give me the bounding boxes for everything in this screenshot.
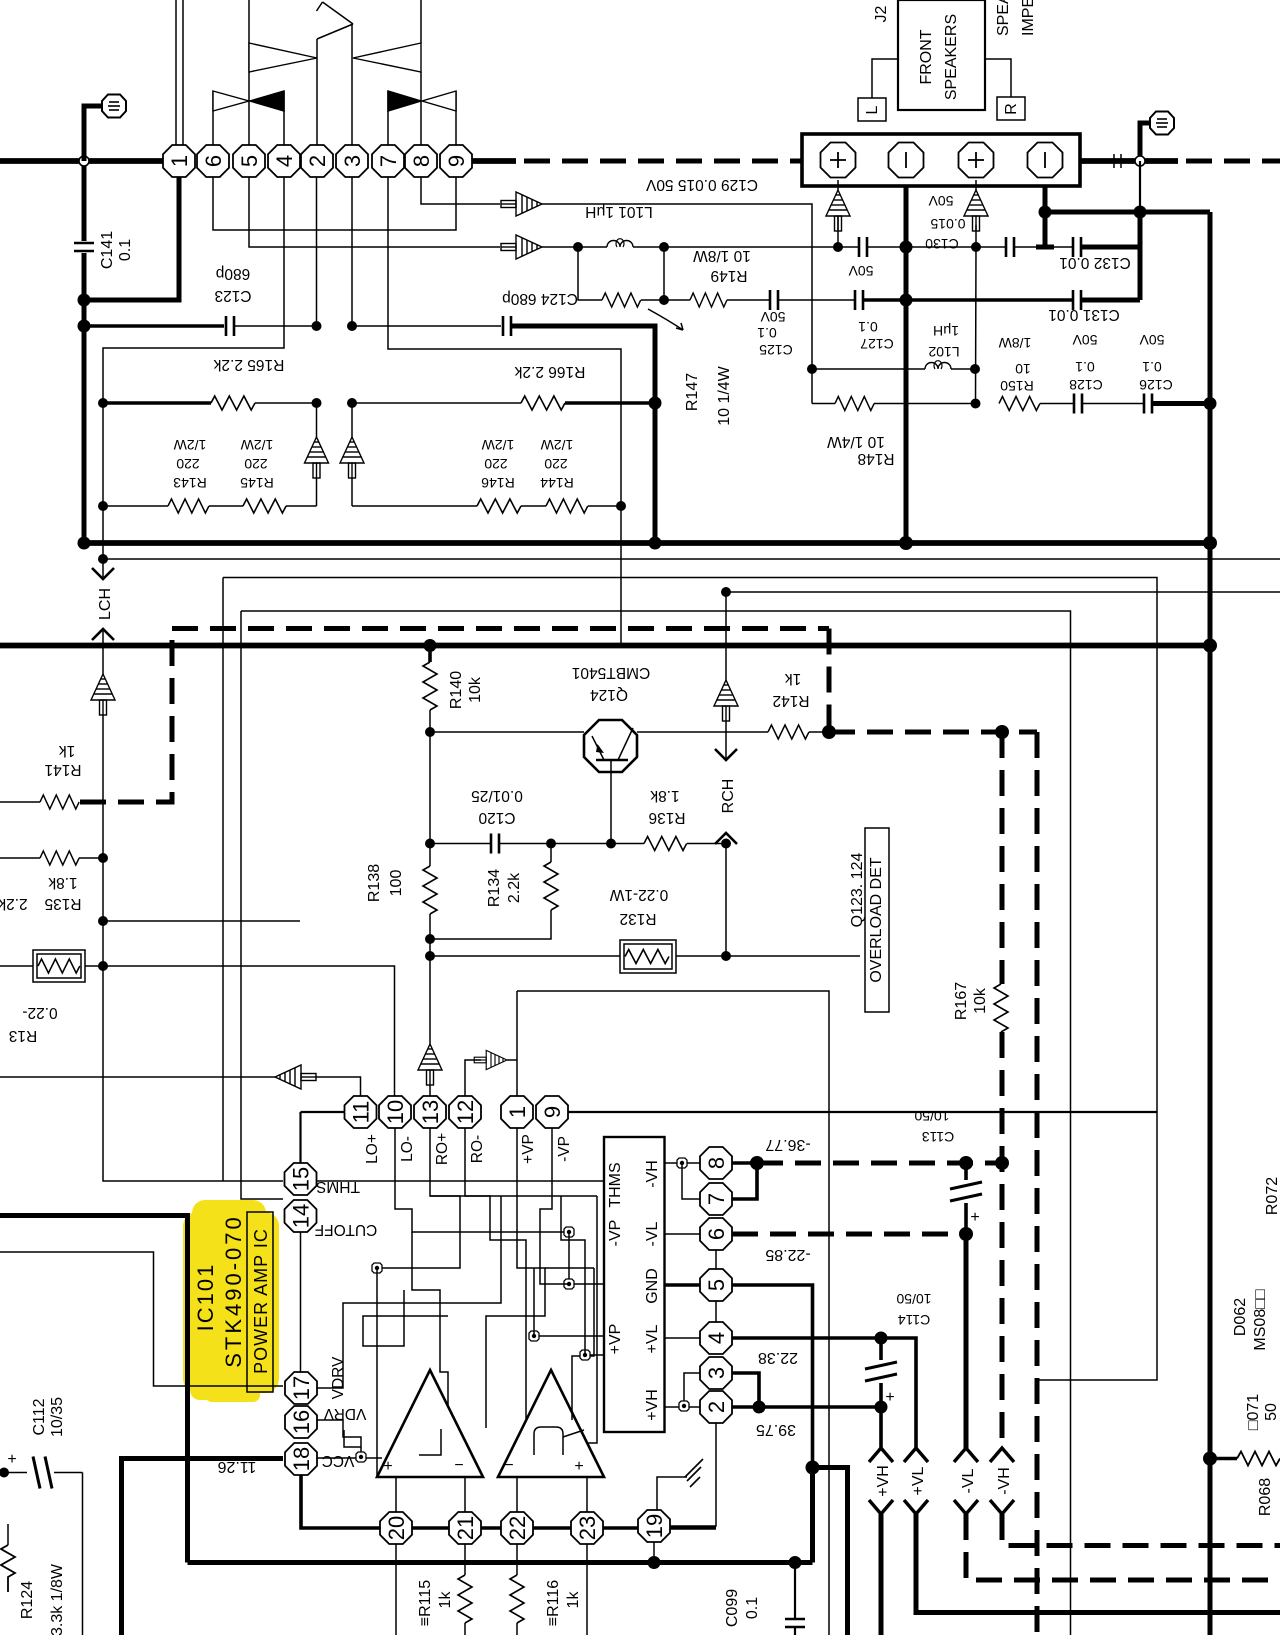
node dot (906,247) (900, 241, 913, 254)
svg-text:22: 22 (505, 1516, 530, 1540)
terminal R box (985, 59, 1025, 120)
svg-text:C113: C113 (922, 1129, 955, 1145)
IC inner label box (604, 1137, 665, 1432)
svg-text:50V: 50V (1139, 332, 1165, 348)
arrow input LCH out (y204) (501, 192, 542, 216)
svg-text:1: 1 (505, 1106, 530, 1118)
wire pin12 column with right arrow (465, 1060, 481, 1096)
wire GND row heavy box to pin5 (664, 1283, 700, 1287)
node dot (655,543) (649, 537, 662, 550)
wire mesh pin12 drop (465, 1128, 526, 1419)
wire -VL row box to pin6 (664, 1233, 700, 1235)
wire -L terminal down to bus2 (904, 186, 909, 543)
svg-text:R150: R150 (1000, 378, 1034, 394)
svg-text:R145: R145 (240, 475, 274, 491)
resistor R142 1k (768, 670, 829, 739)
svg-text:1k: 1k (565, 1591, 582, 1609)
resistor R165 2.2k (103, 356, 317, 410)
wire pin8 heavy to dashed node (732, 1161, 757, 1165)
wire THMS pin15 row to box (317, 1180, 604, 1182)
wire triangle R outputs down (516, 1477, 518, 1512)
wire pin4 heavy right y1338 (732, 1338, 916, 1448)
svg-text:2: 2 (704, 1401, 729, 1413)
resistor R137 fusible 0.22-1W (0, 950, 103, 1044)
resistor R115 1k (417, 1544, 472, 1635)
svg-text:19: 19 (642, 1514, 667, 1538)
connector pin 1 (163, 145, 195, 177)
svg-text:0.1: 0.1 (1142, 359, 1162, 375)
node dot (975,403.5) (971, 399, 981, 409)
node dot (352,403) (347, 398, 357, 408)
wire stub y921 (103, 920, 300, 922)
wire triangle L outputs down (395, 1477, 397, 1512)
svg-text:−: − (504, 1457, 513, 1474)
capacitor C120 0.01/25 (471, 787, 523, 854)
pin 19 (638, 1510, 670, 1542)
svg-text:LO+: LO+ (364, 1134, 381, 1164)
node dot (1045,212) (1039, 206, 1052, 219)
label POWER AMP IC box (247, 1212, 273, 1392)
node hexdot (684,1405) (679, 1401, 689, 1411)
terminal - L (889, 143, 924, 178)
arrow on LCH column (91, 674, 115, 715)
wire pins14-17 column (300, 1232, 302, 1372)
svg-text:18: 18 (289, 1447, 314, 1471)
svg-text:0.1: 0.1 (1075, 359, 1095, 375)
wire pin2 column to R145 row (316, 403, 318, 437)
wire x430 956 to arrow (429, 956, 431, 1044)
pin 2 (700, 1391, 732, 1423)
resistor R136 1.8k (644, 787, 726, 851)
wire C120 row y843.5 (430, 843, 491, 845)
wire heavy x1210 vertical top (1208, 212, 1213, 1635)
wire heavy pin row y1528 (380, 1526, 716, 1530)
speaker terminal box (802, 134, 1080, 186)
node dashed dot (1002,732) (995, 725, 1009, 739)
svg-text:RCH: RCH (720, 779, 737, 814)
svg-text:0.1: 0.1 (744, 1597, 761, 1619)
wire pin5 to L101 row y247 (249, 177, 500, 247)
inductor L102 1uH (812, 323, 975, 369)
wire pin7 tie to hexdot (682, 1163, 700, 1199)
highlight marker IC101 (183, 1200, 279, 1402)
svg-text:+VH: +VH (875, 1465, 892, 1497)
wire dashed -VP row y1163 (757, 1161, 1002, 1166)
svg-text:-VH: -VH (644, 1160, 661, 1188)
svg-text:50: 50 (1263, 1403, 1280, 1421)
wire Q124 right to R142 (637, 731, 768, 733)
wire R138 bottom (429, 914, 431, 956)
wire heavy bus2 y543 (82, 540, 1210, 546)
pin 5 (700, 1269, 732, 1301)
svg-text:Q124: Q124 (590, 686, 628, 703)
svg-text:7: 7 (376, 155, 401, 167)
svg-text:R132: R132 (619, 910, 656, 927)
wire C125 to C127 (778, 299, 855, 301)
capacitor C127 0.1 50V (848, 263, 894, 352)
arrow on pin13 column (418, 1044, 442, 1085)
svg-text:0.22-1W: 0.22-1W (609, 886, 668, 903)
svg-text:CMBT5401: CMBT5401 (572, 664, 650, 681)
wire heavy pin18 to pin row (301, 1475, 380, 1528)
node dot (759,1407) (753, 1401, 766, 1414)
wire heavy bus right of pin 9 (470, 158, 516, 164)
svg-text:1/2W: 1/2W (540, 437, 573, 453)
node dot (611,843.5) (606, 839, 616, 849)
connector pin 8 (405, 145, 437, 177)
capacitor C099 0.1 (724, 1563, 805, 1635)
wire dashed vertical x1002 R167 to -VH chev (1000, 1032, 1005, 1446)
resistor R134 2.2k (430, 844, 558, 940)
capacitor C123 680p (214, 265, 316, 336)
wire C129 to -L column (867, 246, 906, 248)
svg-text:10/35: 10/35 (49, 1397, 66, 1437)
node dot (664,300) (659, 295, 669, 305)
svg-text:220: 220 (244, 456, 268, 472)
svg-text:R146: R146 (481, 475, 515, 491)
wire dashed heavy bus to speaker box (524, 159, 802, 164)
svg-text:SPEAKERS: SPEAKERS (943, 14, 960, 100)
wire R149 branch down from L101 left node (578, 247, 602, 300)
wire y247 row to C129 (664, 246, 859, 248)
wire arrow to pin11 (316, 1077, 361, 1096)
wire mesh loop b (572, 1268, 594, 1420)
svg-text:-VH: -VH (996, 1467, 1013, 1495)
svg-text:+VP: +VP (520, 1134, 537, 1164)
svg-text:1: 1 (167, 155, 192, 167)
svg-text:C129 0.015 50V: C129 0.015 50V (645, 176, 758, 193)
svg-text:10 1/4W: 10 1/4W (827, 433, 885, 450)
connector J2 body (898, 0, 985, 110)
op-amp triangle L (377, 1370, 483, 1477)
chassis ground bolt top-left (84, 95, 126, 162)
resistor R150 10 1/8W (998, 335, 1040, 411)
svg-text:220: 220 (176, 456, 200, 472)
pin 16 (285, 1406, 317, 1438)
wire mesh x377 drop to L input (376, 1268, 378, 1477)
svg-text:39.75: 39.75 (756, 1421, 796, 1438)
svg-text:50V: 50V (1072, 332, 1098, 348)
svg-text:D062: D062 (1232, 1298, 1249, 1336)
node hexdot (377,1268) (372, 1263, 382, 1273)
wire base row y732 (430, 731, 584, 733)
svg-text:R068: R068 (1257, 1478, 1274, 1516)
svg-text:17: 17 (289, 1376, 314, 1400)
arrow below terminal +R (964, 180, 988, 231)
node +VL chevrons (904, 1448, 1280, 1613)
svg-text:STK490-070: STK490-070 (221, 1214, 246, 1368)
terminal L box (858, 59, 898, 121)
wire y247 row (542, 246, 578, 248)
wire C123 row heavy stub (84, 324, 224, 328)
pin 10 (379, 1096, 411, 1128)
wire x103 column 631-1181 handled above; dot (103,921) (98, 916, 108, 926)
wire VDRV net pin17 (317, 1196, 501, 1388)
svg-text:7: 7 (704, 1193, 729, 1205)
capacitor C126 0.1 50V (1139, 332, 1173, 414)
wire pin23 down to bottom (586, 1544, 588, 1635)
wire arrow apex to +VP column (507, 1059, 517, 1061)
wire dashed net y628 (172, 626, 829, 631)
wire heavy bus3 y645.5 (0, 643, 1210, 649)
wire x976 column 247-403 (975, 247, 978, 404)
node dashed dot (829,732) (822, 725, 836, 739)
node dot (103,403) (98, 398, 108, 408)
wire y966 row to x394 down to pin10 (103, 966, 395, 1096)
wire VDRV net pin16 (317, 1420, 361, 1456)
wire x726 843-956 (725, 844, 727, 957)
wire pin1 to node (84, 177, 179, 300)
wire mesh pin10 drop (395, 1128, 569, 1232)
wire C124 row (352, 325, 501, 327)
pin 9 (536, 1096, 568, 1128)
svg-text:13: 13 (418, 1100, 443, 1124)
svg-text:-36.77: -36.77 (765, 1136, 810, 1153)
wire net +VP x829 vertical (517, 991, 829, 1635)
node dot (726,956) (721, 951, 731, 961)
svg-text:LCH: LCH (97, 588, 114, 620)
svg-text:16: 16 (289, 1410, 314, 1434)
wire pin1 column up to y991 (516, 991, 518, 1096)
svg-text:50V: 50V (848, 263, 874, 279)
node dot (1140,212) (1134, 206, 1147, 219)
resistor R135 1.8k (0, 851, 103, 912)
node dot (881,1407) (875, 1401, 888, 1414)
svg-text:R141: R141 (44, 761, 81, 778)
svg-text:R: R (1003, 103, 1020, 115)
capacitor C130 0.015 50V (925, 193, 1014, 257)
svg-text:□071: □071 (1245, 1394, 1262, 1430)
svg-text:J2: J2 (873, 5, 890, 22)
wire -VH row box to pin8 (664, 1162, 700, 1164)
wire x1140 vertical 212-300 (1138, 212, 1143, 300)
wire net THMS y577 to x1157 down (223, 578, 1157, 1381)
wire double line above pin 1 (176, 0, 183, 145)
wire mesh +VP stub (534, 1335, 604, 1337)
wire pin3 heavy elbow to pin2 row (732, 1373, 759, 1407)
node hexdot (682,1163) (677, 1158, 687, 1168)
svg-text:RO+: RO+ (434, 1133, 451, 1165)
wire C131 to x1140 heavy (1081, 298, 1140, 303)
svg-text:20: 20 (384, 1516, 409, 1540)
node hexdot (585,1355) (580, 1350, 590, 1360)
wire C120 to R136 (499, 843, 644, 845)
wire pin19 bottom (653, 1542, 655, 1563)
wire pin7 heavy elbow (732, 1163, 757, 1199)
capacitor C132 0.01 (1054, 237, 1131, 271)
svg-text:R144: R144 (540, 475, 574, 491)
svg-text:4: 4 (704, 1332, 729, 1344)
flag above pin 7 (filled) (388, 91, 421, 145)
pin 21 (449, 1512, 481, 1544)
node dot (757,1163) (750, 1156, 764, 1170)
node bus junction circle at C141 tap (79, 156, 89, 166)
ground rake at pin19 (657, 1459, 703, 1510)
pin 3 (700, 1357, 732, 1389)
wire x1045 down to C132 row (1043, 212, 1048, 247)
svg-text:POWER AMP IC: POWER AMP IC (251, 1228, 271, 1374)
wire RCH arrow to y592 (725, 592, 727, 680)
wire CUTOFF net x241 (241, 611, 283, 1199)
wire arrow to pin13 (429, 1085, 431, 1096)
wire -R terminal down to cap row (1043, 186, 1048, 247)
svg-text:FRONT: FRONT (918, 29, 935, 84)
wire ticks on bus (1114, 154, 1121, 168)
node dot (430,956) (425, 951, 435, 961)
svg-text:R136: R136 (648, 809, 685, 826)
label Q123.124 OVERLOAD DET (849, 828, 889, 1012)
wire x430 732-863 (429, 732, 431, 866)
svg-text:-VL: -VL (960, 1468, 977, 1493)
node dot (430,732) (425, 727, 435, 737)
node dot (430,843.5) (425, 839, 435, 849)
node dot (966,1163) (959, 1156, 973, 1170)
svg-text:L101 1μH: L101 1μH (585, 203, 653, 220)
svg-text:C130: C130 (925, 236, 959, 252)
svg-text:≡R116: ≡R116 (545, 1580, 562, 1627)
node dot (906,300) (900, 294, 913, 307)
arrow on pin2 column (305, 437, 329, 478)
wire net RCH y592 (726, 591, 1280, 593)
arrow input (y247) (501, 235, 542, 259)
flag above pin 2 (317, 24, 353, 145)
node hexdot (534,1336) (529, 1331, 539, 1341)
node hexdot (361,1457) (356, 1452, 366, 1462)
node dot (84,543) (78, 537, 91, 550)
svg-text:VCC: VCC (322, 1452, 355, 1469)
svg-text:C132 0.01: C132 0.01 (1059, 254, 1131, 271)
resistor R149a (602, 293, 641, 307)
node dot (84,326) (78, 320, 91, 333)
svg-text:OVERLOAD DET: OVERLOAD DET (868, 857, 885, 983)
connector pin 2 (301, 145, 333, 177)
flag above pin 5 (249, 0, 317, 145)
svg-text:C114: C114 (898, 1312, 931, 1328)
svg-text:THMS: THMS (607, 1162, 624, 1207)
wire mesh pin13 drop (377, 1128, 460, 1268)
node dot (812,369) (807, 364, 817, 374)
svg-text:100: 100 (388, 870, 405, 897)
node dot (1210,543) (1203, 536, 1217, 550)
svg-text:C125: C125 (759, 342, 793, 358)
svg-text:2: 2 (305, 155, 330, 167)
capacitor C114 10/50 (865, 1291, 932, 1406)
terminal + L (821, 143, 856, 178)
svg-text:R13: R13 (9, 1027, 37, 1044)
svg-text:8: 8 (409, 155, 434, 167)
node dot (430,939) (425, 934, 435, 944)
svg-text:23: 23 (575, 1516, 600, 1540)
flag above pin 3 (317, 2, 354, 145)
wire dashed corner down x829 (827, 629, 832, 733)
connector pin 3 (336, 145, 368, 177)
svg-text:R124: R124 (19, 1581, 36, 1619)
svg-text:+VP: +VP (607, 1324, 624, 1355)
node -VL chevrons (954, 1234, 1280, 1580)
svg-text:C120: C120 (478, 809, 515, 826)
capacitor C129 plates (859, 237, 867, 257)
svg-text:R134: R134 (486, 869, 503, 907)
resistor R138 100 (366, 864, 437, 914)
wire heavy row y212 (1045, 210, 1210, 215)
flag above pin 6 (213, 91, 249, 145)
wire dashed vertical x1002 down to R167 (1000, 732, 1005, 984)
svg-text:CUTOFF: CUTOFF (315, 1221, 378, 1238)
node dot (103,858) (98, 853, 108, 863)
wire mesh pin1 drop (486, 1128, 545, 1428)
wire pin2 bottom to pin19 (670, 1423, 716, 1526)
resistor R149 10 1/8W (641, 247, 770, 307)
resistor R141 1k (0, 742, 82, 809)
pin 22 (501, 1512, 533, 1544)
svg-text:8: 8 (704, 1157, 729, 1169)
flag above pin 9 (422, 91, 456, 145)
svg-text:C141: C141 (99, 231, 116, 269)
svg-text:680p: 680p (216, 265, 250, 282)
node dot (906,543) (899, 536, 913, 550)
svg-text:10: 10 (383, 1100, 408, 1124)
wire heavy bus4 y1215 (0, 1216, 188, 1563)
svg-text:0.1: 0.1 (858, 319, 878, 335)
wire C127 to -L column heavy (863, 298, 906, 302)
label SPEAKER IMPEDANCE (995, 0, 1037, 36)
connector pin 5 (233, 145, 265, 177)
node dot (551,843.5) (546, 839, 556, 849)
svg-text:C126: C126 (1139, 377, 1173, 393)
svg-text:1/8W: 1/8W (998, 335, 1031, 351)
svg-text:+VH: +VH (644, 1389, 661, 1421)
svg-text:-VP: -VP (556, 1136, 573, 1162)
wire pin2 down to C123 node (316, 177, 318, 326)
svg-text:+: + (7, 1451, 16, 1468)
svg-text:R167: R167 (953, 982, 970, 1020)
wire net CUTOFF y611 to x1070 down (241, 611, 1071, 1635)
svg-text:−: − (454, 1457, 463, 1474)
svg-text:-VL: -VL (644, 1221, 661, 1246)
label C071 50 (1245, 1394, 1280, 1430)
svg-text:5: 5 (704, 1279, 729, 1291)
wire heavy bus from speaker box to chassis node (1080, 158, 1178, 164)
wire pin6 to pin9 jumper (213, 177, 456, 230)
svg-text:11: 11 (349, 1101, 374, 1124)
wire dashed vertical x1037 down (1035, 732, 1040, 1635)
svg-text:10 1/4W: 10 1/4W (716, 365, 733, 425)
svg-text:R165 2.2k: R165 2.2k (213, 356, 284, 373)
svg-text:2.2k: 2.2k (0, 895, 28, 912)
node dot (1210,403.5) (1204, 397, 1217, 410)
svg-text:-VP: -VP (607, 1220, 624, 1247)
wire pin20 down to bottom (395, 1544, 397, 1635)
label D062 (1232, 1289, 1269, 1350)
transistor Q124 CMBT5401 (572, 664, 650, 844)
wire thin box y1252-x153 (0, 1252, 283, 1386)
svg-text:220: 220 (484, 456, 508, 472)
svg-text:9: 9 (444, 155, 469, 167)
arrow below terminal +L (826, 180, 850, 231)
wire y204 row to corner x812 (542, 204, 812, 404)
svg-text:≡R115: ≡R115 (417, 1580, 434, 1627)
resistor R124 3.3k 1/8W (1, 1524, 66, 1635)
svg-text:L: L (864, 105, 881, 114)
node dot (1210,645.5) (1203, 639, 1217, 653)
svg-text:10: 10 (1015, 361, 1031, 377)
svg-text:R166 2.2k: R166 2.2k (514, 363, 585, 380)
svg-text:1/2W: 1/2W (240, 437, 273, 453)
resistor R068 (1203, 1452, 1280, 1517)
resistor R132 0.22-1W boxed (609, 886, 676, 973)
svg-text:C112: C112 (31, 1398, 48, 1435)
wire pin8 to input arrow row y204 (421, 177, 500, 204)
